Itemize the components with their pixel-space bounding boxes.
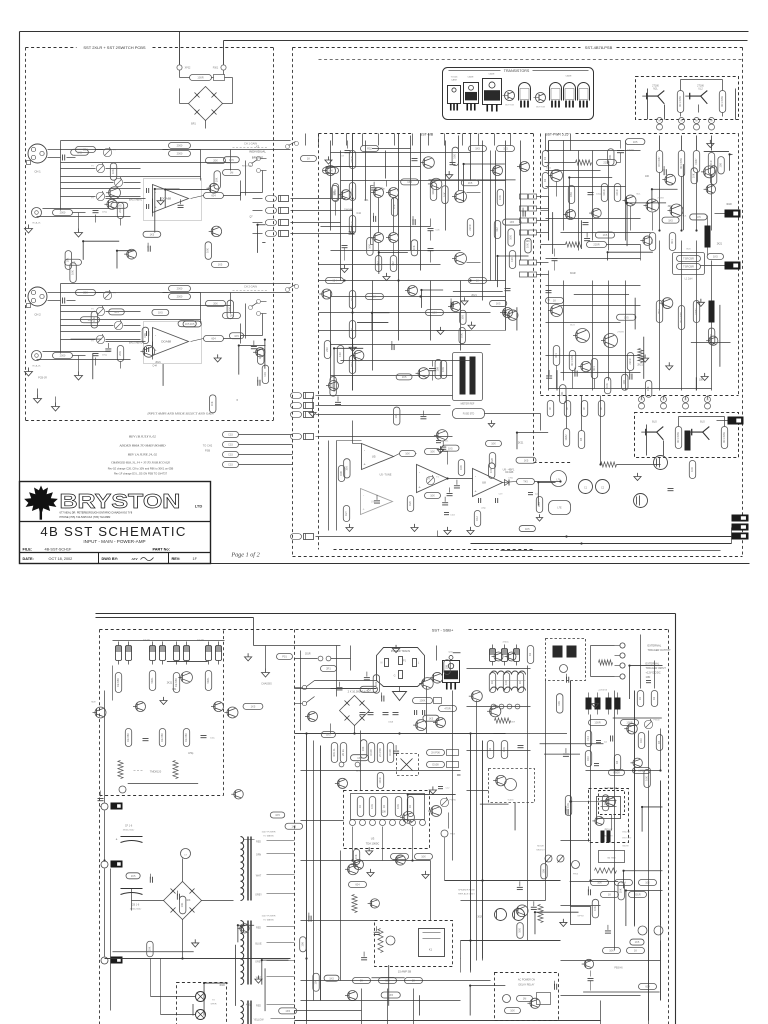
- svg-text:1K5: 1K5: [503, 147, 508, 151]
- svg-text:1K5: 1K5: [326, 733, 331, 737]
- connector pair row 3: [266, 220, 277, 226]
- P2C resistor F20: [300, 937, 306, 952]
- res out v1: [563, 429, 569, 447]
- wire AC mains top bus: [224, 40, 748, 42]
- MB top cap C220p: [345, 150, 351, 152]
- ground ch2 main: [37, 395, 39, 399]
- PWR transistor F21: [704, 166, 716, 178]
- PWRlow wire F17: [556, 370, 558, 390]
- svg-text:RCA-JK: RCA-JK: [33, 222, 41, 225]
- svg-text:332: 332: [391, 261, 395, 266]
- svg-text:1K: 1K: [490, 681, 494, 684]
- svg-text:1K5: 1K5: [117, 204, 122, 208]
- PWR cap 100p: [588, 192, 594, 194]
- gnd mid 1: [370, 869, 372, 873]
- svg-text:2K21: 2K21: [155, 362, 161, 364]
- resistor shunt CH 1: [117, 203, 123, 219]
- svg-text:DWG BY:: DWG BY:: [102, 557, 119, 561]
- p2 mid verticals: [470, 734, 472, 973]
- MBlow transistor F1: [418, 368, 429, 379]
- P2L wire F5: [192, 1004, 194, 1016]
- svg-text:C44: C44: [357, 213, 362, 215]
- mid bub row2 a: [391, 854, 409, 860]
- legend package TO-247: [483, 79, 502, 105]
- svg-text:PH03: PH03: [450, 834, 456, 836]
- svg-text:0R1 63W: 0R1 63W: [722, 432, 726, 443]
- res rows mid right: [487, 741, 493, 759]
- P2R wire F11: [493, 732, 567, 734]
- CH1f resistor F21: [223, 157, 239, 163]
- P2L resistor F24: [126, 873, 140, 879]
- svg-text:4700u: 4700u: [502, 642, 509, 644]
- dcdc circle: [560, 665, 568, 673]
- date row dividers: [98, 553, 100, 564]
- svg-text:YELLOW: YELLOW: [254, 1019, 265, 1022]
- zig right big: [595, 868, 617, 873]
- U3 res 4: [395, 797, 401, 817]
- svg-text:FUSE 5TD: FUSE 5TD: [463, 413, 475, 416]
- MB vertical rail 2: [398, 134, 400, 341]
- P2L resistor F12: [179, 896, 185, 914]
- res R11: [425, 449, 441, 455]
- capacitor 470p CH 1: [93, 210, 99, 212]
- bot bub 3: [405, 978, 423, 984]
- svg-text:R61: R61: [537, 502, 541, 507]
- MB hbus 2: [331, 296, 506, 298]
- svg-text:301R: 301R: [634, 893, 640, 897]
- P2L resistor F22: [147, 941, 153, 957]
- svg-text:+: +: [116, 838, 118, 842]
- res R12v: [474, 511, 480, 527]
- MB top cap a: [412, 158, 418, 160]
- MB cap C26: [428, 228, 434, 230]
- svg-text:1K0: 1K0: [338, 352, 342, 357]
- P2C wire F9: [418, 995, 420, 1015]
- MB mid connector 4: [291, 434, 302, 440]
- MB resistor top2: [497, 146, 515, 152]
- PWRlow transistor F2: [662, 298, 673, 309]
- res P01: [277, 654, 293, 660]
- MB res h3: [426, 310, 444, 316]
- svg-text:100V POWER: 100V POWER: [262, 832, 276, 834]
- res bank h3: [183, 729, 189, 747]
- svg-text:2K: 2K: [350, 298, 354, 301]
- svg-text:D108: D108: [388, 749, 392, 756]
- P2L capacitor F14: [149, 877, 151, 883]
- svg-text:1K5: 1K5: [525, 527, 530, 531]
- res right rel: [565, 796, 571, 816]
- CH1f junction wire F15: [117, 250, 135, 252]
- PWRlow wire F14: [634, 298, 636, 330]
- res out v2: [578, 431, 584, 449]
- svg-text:1K5: 1K5: [696, 215, 701, 219]
- MB resistor F43: [490, 300, 507, 306]
- transistor 2T193 lower: [692, 427, 710, 433]
- wires opamp cluster: [394, 454, 400, 457]
- mid bub TH02: [427, 762, 445, 768]
- svg-text:C15: C15: [228, 463, 233, 467]
- CH1f resistor F4: [111, 202, 128, 208]
- wire output CH 1: [240, 193, 242, 196]
- CH1f wire F10: [262, 241, 265, 243]
- PWR transistor 2N5401: [551, 170, 563, 182]
- svg-text:3900u/100v: 3900u/100v: [123, 830, 135, 832]
- MB transistor bl: [329, 381, 339, 391]
- svg-text:0R67: 0R67: [694, 158, 698, 165]
- mid res col 2: [340, 743, 346, 763]
- MB resistor col a6: [349, 321, 355, 339]
- MB-PWR connector 1: [520, 194, 528, 199]
- CH2f junction wire F22: [264, 339, 267, 341]
- svg-text:X3: X3: [256, 145, 260, 149]
- wire output CH 2: [240, 336, 242, 339]
- cap mid right: [518, 745, 524, 747]
- p2 bus lines: [445, 880, 561, 882]
- svg-text:0R67: 0R67: [694, 308, 698, 315]
- XLR connector CH 2: [28, 287, 47, 306]
- P2R resistor F35: [618, 882, 624, 900]
- PWRlow capacitor F5: [629, 374, 631, 380]
- MB vertical rail 1: [352, 134, 354, 391]
- gain jumper CH 1: [286, 145, 290, 149]
- P2R resistor F15: [602, 795, 608, 811]
- svg-text:OPTO: OPTO: [577, 916, 583, 918]
- MB capacitor F31: [349, 231, 355, 233]
- pin G: [399, 671, 403, 679]
- maple leaf logo: [24, 486, 58, 520]
- U3 pin circles: [350, 820, 356, 826]
- svg-text:1K5: 1K5: [496, 302, 501, 306]
- CH1f ground F14: [160, 197, 162, 201]
- P2C resistor F32: [351, 755, 369, 761]
- resistor 2000 a CH 2: [169, 286, 191, 292]
- MB top band extra: [305, 134, 307, 146]
- svg-text:2K21: 2K21: [471, 295, 477, 297]
- svg-text:R1: R1: [543, 156, 547, 160]
- transformer T1 secondary: [241, 837, 244, 843]
- MB gnd 1: [344, 265, 346, 269]
- svg-text:470p: 470p: [379, 188, 385, 190]
- svg-text:4B-SST-SCH1F: 4B-SST-SCH1F: [45, 548, 72, 552]
- svg-text:604: 604: [332, 279, 337, 283]
- svg-text:10K: 10K: [541, 869, 545, 874]
- P2R transistor F38: [530, 998, 540, 1008]
- svg-text:10K: 10K: [645, 776, 649, 781]
- OPA capacitor F6: [442, 502, 448, 504]
- PWRlow ground F13: [700, 299, 702, 303]
- MB capacitor F8: [450, 302, 452, 308]
- transformer T08 right: [491, 671, 498, 674]
- center vertical rails: [306, 734, 308, 1024]
- capacitor fb1 CH 2: [146, 331, 148, 336]
- svg-text:C15: C15: [228, 433, 233, 437]
- transistor MJE a: [95, 707, 106, 718]
- led 1: [545, 855, 552, 862]
- P2L ground F21: [257, 976, 259, 980]
- relay circle: [386, 936, 395, 945]
- PWR transistor F9: [643, 236, 652, 245]
- svg-text:10K: 10K: [215, 177, 219, 182]
- CH1f transistor F20: [211, 226, 221, 236]
- svg-text:EXT 12V: EXT 12V: [623, 838, 632, 840]
- res left2: [343, 506, 349, 522]
- OPA capacitor F11: [440, 446, 446, 448]
- right mid caps: [490, 649, 496, 662]
- svg-text:1K5: 1K5: [366, 687, 371, 691]
- svg-text:ADDED R66A TO MAIN BOARD: ADDED R66A TO MAIN BOARD: [118, 444, 166, 448]
- MB diff pair Q4: [389, 233, 399, 243]
- P2C resistor F18: [324, 975, 339, 981]
- T08 pins: [491, 704, 496, 709]
- legend package dome 3: [564, 83, 576, 101]
- MB ground F12: [448, 171, 450, 175]
- P2L resistor F2: [285, 823, 303, 829]
- MB res h2: [366, 294, 384, 300]
- svg-text:CH 2 GAIN: CH 2 GAIN: [244, 285, 257, 289]
- svg-text:BLG: BLG: [570, 325, 575, 327]
- resistor out CH 1: [204, 193, 224, 199]
- res col right 1: [585, 731, 591, 747]
- svg-text:1K5: 1K5: [71, 260, 76, 264]
- MB capacitor F39: [412, 219, 414, 225]
- res R20 vert: [458, 460, 464, 476]
- gnd u5a: [440, 446, 442, 449]
- opamp U8: [473, 469, 503, 497]
- svg-text:10K: 10K: [460, 315, 464, 320]
- PWRlow transistor F24: [709, 336, 718, 345]
- svg-text:2000: 2000: [60, 354, 66, 358]
- dashed inner line PSB: [319, 59, 743, 61]
- U3 res 1: [357, 797, 363, 817]
- svg-text:DELAY RELAY: DELAY RELAY: [519, 984, 535, 987]
- ground input CH 2: [28, 368, 30, 372]
- MB hbus 3: [319, 312, 491, 314]
- bus bottom 3: [501, 550, 721, 552]
- P2R resistor F10: [541, 864, 547, 879]
- svg-text:SST 2XLR + SST 2SWITCH PCBS: SST 2XLR + SST 2SWITCH PCBS: [83, 45, 146, 50]
- P2R capacitor F7: [517, 886, 523, 888]
- svg-text:10K: 10K: [263, 372, 267, 377]
- svg-text:CH 2: CH 2: [34, 313, 41, 317]
- title block divider 2: [20, 552, 211, 554]
- PWR transistor F27: [665, 174, 676, 185]
- PWR lower vertical wires: [659, 241, 661, 391]
- svg-text:10K: 10K: [70, 270, 74, 275]
- MB mid connector 3: [291, 412, 302, 418]
- CH1f transistor F5: [109, 187, 121, 199]
- CH2f transistor F2: [256, 348, 265, 357]
- U3 inner rect: [351, 794, 425, 820]
- P2L wire F1: [234, 945, 236, 1006]
- svg-text:BRYSTON: BRYSTON: [60, 489, 181, 512]
- speaker jack 1: [196, 992, 206, 1002]
- svg-text:GREY: GREY: [255, 894, 262, 897]
- P2R capacitor F0: [587, 889, 589, 895]
- CH2f transistor F14: [143, 345, 155, 357]
- svg-text:1K: 1K: [408, 805, 412, 808]
- connector pins W3 W4: [694, 118, 700, 124]
- fuse resistor 100R: [190, 75, 212, 81]
- svg-text:10K: 10K: [646, 386, 650, 391]
- legend package dome 2: [550, 83, 562, 101]
- P2C capacitor F28: [393, 750, 399, 752]
- mid res D7: [377, 773, 383, 789]
- MB vertical rail 4: [470, 134, 472, 181]
- svg-text:1K5: 1K5: [524, 458, 529, 462]
- P2C transistor F12: [432, 672, 443, 683]
- bridge rectifier page2 left: [164, 882, 202, 920]
- circle PH03: [441, 830, 448, 837]
- cap C102: [444, 512, 449, 514]
- MB mid connector 2: [291, 403, 302, 409]
- cap bank 2b: [201, 735, 207, 737]
- res R20b: [407, 496, 413, 512]
- res left1: [338, 466, 344, 482]
- PWR res R63: [568, 186, 574, 204]
- svg-text:P! BURN-UP !: P! BURN-UP !: [605, 788, 619, 790]
- svg-text:N: N: [381, 662, 383, 665]
- MB-PWR connector 5: [520, 260, 528, 265]
- svg-text:10N: 10N: [646, 675, 651, 679]
- svg-text:2K21: 2K21: [167, 683, 173, 685]
- psb connector bubble 1: [223, 432, 239, 438]
- svg-text:LTD: LTD: [195, 504, 203, 509]
- CH1f resistor F13: [211, 261, 228, 267]
- svg-text:1K5: 1K5: [668, 218, 673, 222]
- svg-text:1K5: 1K5: [88, 318, 93, 322]
- P2C ground F39: [368, 847, 370, 851]
- cap C11: [436, 440, 441, 442]
- electrolytic cap bank 3: [150, 646, 156, 661]
- transistor 2T186 upper: [690, 91, 708, 97]
- svg-text:10K: 10K: [444, 665, 448, 670]
- P2C transistor F4: [403, 811, 415, 823]
- MB diff pair Q1: [374, 188, 384, 198]
- MB resistor col a4: [349, 216, 355, 234]
- PWR lower res 1: [553, 346, 559, 366]
- CH1f junction wire F0: [155, 188, 180, 190]
- svg-text:RED: RED: [256, 927, 261, 930]
- big cap C2: [596, 480, 610, 494]
- svg-text:SST - SSB+: SST - SSB+: [432, 628, 454, 633]
- connector pair row 4: [266, 231, 277, 237]
- svg-text:BLG: BLG: [652, 421, 657, 424]
- psb connector bubble 4: [223, 462, 239, 468]
- emitter resistor lower 1: [675, 427, 681, 449]
- PWR connector block right 1: [725, 210, 741, 218]
- MB wire F15: [372, 148, 411, 150]
- P2L junction wire F27: [204, 982, 228, 984]
- mid res col 5: [387, 743, 393, 763]
- cap 220p: [478, 498, 480, 503]
- MB resistor mid1: [430, 183, 436, 201]
- MB gnd bl: [312, 409, 314, 413]
- P2R capacitor F24: [553, 984, 555, 990]
- svg-text:INPUT AMPS AND MODE SELECT AND: INPUT AMPS AND MODE SELECT AND GAIN: [146, 412, 214, 416]
- PWR resistor F16: [595, 232, 614, 238]
- P2L wire F11: [167, 661, 208, 663]
- PWR lower cap: [546, 290, 552, 292]
- svg-text:10K: 10K: [491, 442, 496, 446]
- MBlow resistor F4: [330, 377, 336, 397]
- P2L junction wire F6: [262, 959, 289, 961]
- CH2f resistor F25: [80, 317, 99, 323]
- svg-text:1K5: 1K5: [150, 233, 155, 237]
- svg-text:U9 - 4BF1: U9 - 4BF1: [503, 468, 515, 472]
- MB resistor F0: [452, 147, 458, 165]
- wire mesh page2 horizontals: [295, 688, 377, 690]
- mid contact 1: [339, 762, 344, 767]
- PWR lower zig: [638, 349, 643, 363]
- svg-text:0R1 63W: 0R1 63W: [570, 355, 574, 366]
- MB junction wire F18: [379, 251, 408, 253]
- svg-text:CASE: CASE: [566, 75, 572, 78]
- P2C resistor F8: [313, 973, 319, 991]
- svg-text:10K: 10K: [180, 902, 184, 907]
- svg-text:Rev 1F change D3 L, D5 ON PSB: Rev 1F change D3 L, D5 ON PSB TO 1N4737: [114, 472, 168, 476]
- gnd cluster 2: [414, 524, 416, 528]
- svg-text:10K: 10K: [300, 942, 304, 947]
- svg-text:R45: R45: [459, 465, 463, 470]
- relay zig: [378, 929, 383, 953]
- svg-text:2K0: 2K0: [325, 347, 329, 352]
- emitter resistor R6 upper: [677, 91, 683, 113]
- svg-text:10K: 10K: [557, 701, 561, 706]
- wire mesh channels: [61, 149, 291, 151]
- svg-text:1K5: 1K5: [357, 756, 362, 760]
- MB wire F16: [516, 307, 518, 330]
- PWRlow resistor F9: [645, 380, 651, 397]
- lamp page2: [119, 786, 126, 793]
- svg-text:1K5: 1K5: [229, 158, 234, 162]
- svg-text:CASE: CASE: [489, 73, 495, 76]
- CH2f resistor F20: [262, 365, 268, 384]
- PWR black resistor: [705, 226, 711, 248]
- svg-text:N2L: N2L: [653, 88, 658, 91]
- CH2f resistor F0: [258, 349, 264, 364]
- wire mesh page1 MB horizontals: [331, 152, 471, 154]
- P2L wire F19: [112, 951, 193, 953]
- P2C resistor F23: [381, 992, 400, 998]
- svg-text:BOTTOM: BOTTOM: [536, 107, 545, 109]
- res bank 3: [173, 673, 179, 693]
- mode switch CH 1: [249, 163, 253, 167]
- P2C transistor F3: [337, 778, 347, 788]
- gnd cluster 4: [470, 527, 472, 531]
- MB resistor F9: [332, 185, 338, 200]
- svg-text:10K: 10K: [619, 888, 623, 893]
- MB-PWR connector 6: [520, 272, 528, 277]
- PWR resistor F11: [710, 166, 716, 185]
- MB wire F5: [357, 321, 388, 323]
- PWR wire F6: [704, 151, 729, 153]
- svg-text:20K: 20K: [213, 159, 218, 163]
- gnd cluster 1: [349, 524, 351, 528]
- svg-text:10K: 10K: [566, 803, 570, 808]
- delay contents: [503, 995, 511, 1003]
- CH2f resistor F16: [178, 321, 196, 327]
- P2C resistor F33: [373, 675, 379, 693]
- MB transistor Q20: [326, 166, 336, 176]
- MB resistor R52: [361, 146, 379, 152]
- CH1f capacitor F1: [147, 246, 149, 252]
- MB resistor col a7: [349, 356, 355, 374]
- P2C resistor F34: [360, 686, 377, 692]
- title block outer: [20, 482, 211, 564]
- MB meter block: [453, 353, 483, 401]
- svg-text:1K: 1K: [307, 157, 310, 161]
- pin P1: [399, 657, 403, 665]
